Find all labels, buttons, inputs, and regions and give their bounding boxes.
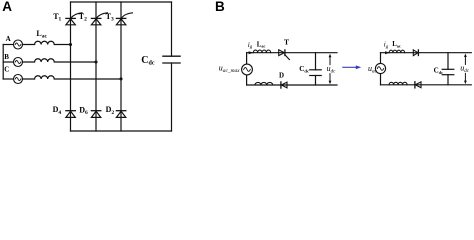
capacitor Cdc plates <box>163 56 180 63</box>
svg-text:A: A <box>2 0 12 14</box>
svg-text:T3: T3 <box>106 12 114 23</box>
capacitor Cdc branch wire top <box>171 2 173 56</box>
thyristor T2 <box>91 13 107 25</box>
diode D4 <box>66 111 75 118</box>
svg-text:T2: T2 <box>79 12 87 23</box>
thyristor T (circuit B left) <box>279 50 290 60</box>
voltage arrow u_dc left circuit <box>329 54 332 85</box>
bottom rail left circuit B <box>247 84 337 86</box>
svg-text:Cdc: Cdc <box>434 67 444 75</box>
diode D2 <box>116 111 125 118</box>
svg-text:C: C <box>4 66 9 74</box>
node phase B junction <box>94 60 97 63</box>
top DC rail <box>71 1 172 3</box>
diode D6 <box>91 111 100 118</box>
capacitor Cdc right circuit <box>442 53 454 85</box>
svg-text:ig: ig <box>248 41 253 50</box>
bridge leg 1 <box>70 2 72 131</box>
svg-text:A: A <box>6 35 11 43</box>
svg-text:D: D <box>279 71 284 79</box>
top rail right circuit B <box>381 52 472 54</box>
bridge leg 3 <box>120 2 122 131</box>
svg-text:D4: D4 <box>53 105 62 116</box>
svg-text:T1: T1 <box>53 12 61 23</box>
current arrow i_g right <box>385 51 390 54</box>
svg-text:T: T <box>284 38 289 47</box>
voltage arrow u_dc right circuit <box>464 54 467 85</box>
inductor bottom right circuit <box>389 82 407 85</box>
AC source phase A <box>14 40 23 49</box>
svg-text:Lac: Lac <box>36 29 47 40</box>
inductor L_ac top right circuit <box>389 50 405 53</box>
svg-text:uac_max: uac_max <box>219 64 240 75</box>
neutral bus <box>2 45 4 80</box>
wire bus to source B <box>3 61 13 63</box>
inductor phase A <box>22 41 70 44</box>
bridge leg 2 <box>95 2 97 131</box>
inductor L_ac top left circuit <box>253 50 270 53</box>
svg-text:Cdc: Cdc <box>299 65 309 74</box>
svg-text:D2: D2 <box>106 105 115 116</box>
diode D (circuit B left) <box>281 82 287 88</box>
wire bus to source A <box>3 44 13 46</box>
svg-text:B: B <box>4 53 9 61</box>
AC source u_ac_max <box>242 53 253 85</box>
diode top right circuit <box>413 50 418 56</box>
svg-text:Lac: Lac <box>257 41 266 48</box>
transform arrow <box>343 65 361 69</box>
node phase A junction <box>69 43 72 46</box>
svg-text:D6: D6 <box>79 106 88 117</box>
inductor phase C <box>22 76 121 79</box>
bottom rail right circuit B <box>381 84 472 86</box>
svg-text:udc: udc <box>460 63 470 74</box>
inductor phase B <box>22 59 96 62</box>
thyristor T1 <box>66 13 82 25</box>
diode bottom right circuit <box>415 82 421 88</box>
top rail left circuit B <box>247 52 337 54</box>
thyristor T3 <box>116 13 132 25</box>
AC source phase C <box>14 75 23 84</box>
svg-text:B: B <box>215 0 225 14</box>
current arrow i_g left <box>249 51 254 54</box>
capacitor Cdc branch wire bottom <box>171 63 173 131</box>
svg-text:Cdc: Cdc <box>141 55 155 67</box>
wire bus to source C <box>3 78 13 80</box>
svg-text:ig: ig <box>384 41 389 50</box>
inductor bottom left circuit <box>255 82 273 85</box>
AC source u_ac <box>375 53 385 85</box>
capacitor Cdc left circuit <box>310 53 321 85</box>
svg-text:udc: udc <box>327 64 337 75</box>
bottom DC rail <box>71 130 172 132</box>
svg-text:Lac: Lac <box>392 41 401 48</box>
node phase C junction <box>119 77 122 80</box>
AC source phase B <box>14 58 23 67</box>
